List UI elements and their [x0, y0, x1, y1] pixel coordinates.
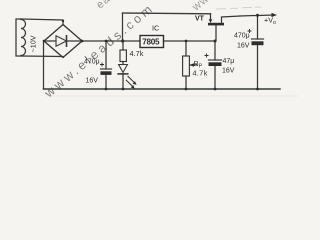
capacitor C2 47u wires [214, 41, 216, 89]
ground rail (bottom) [44, 88, 281, 90]
svg-text:16V: 16V [222, 68, 235, 75]
transformer T1 secondary coil [16, 19, 26, 56]
capacitor C2 thick plate [209, 62, 222, 66]
svg-text:7805: 7805 [142, 38, 160, 47]
regulator output rail [164, 40, 216, 42]
wire AC bottom: coil to bridge bottom vertex [21, 55, 63, 58]
junction dot output/C3 top [256, 14, 259, 17]
transistor VT emitter arrow [209, 19, 213, 23]
bridge internal diode symbol [46, 36, 80, 46]
wire DC- : left vertex down to ground rail [43, 41, 45, 89]
capacitor C3 470u wires [257, 15, 259, 89]
capacitor C1 thick plate [101, 71, 112, 75]
svg-text:470μ: 470μ [84, 59, 100, 66]
transistor VT base lead [215, 25, 217, 41]
LED lower wire [122, 74, 124, 89]
LED emission arrow strokes [100, 29, 252, 87]
junction dot C1 top [105, 40, 108, 43]
capacitor C3 plate thin [252, 38, 264, 40]
junction dot C1 bottom [105, 88, 108, 91]
capacitor C3 plus sign [248, 29, 252, 33]
potentiometer Rp wire bottom [185, 76, 187, 89]
junction dot base/C2 node [214, 40, 217, 43]
resistor R1 4.7k branch wire [122, 41, 124, 65]
wire DC+ rail to regulator input [82, 40, 140, 42]
svg-text:IC: IC [152, 24, 159, 33]
transistor VT collector drop [210, 14, 212, 20]
resistor R1 4.7k body [120, 50, 126, 62]
svg-text:16V: 16V [237, 43, 250, 50]
junction dot bridge top [62, 20, 64, 22]
svg-text:4.7k: 4.7k [193, 69, 208, 78]
LED VD triangle [119, 65, 128, 73]
IC U1 7805 box [140, 36, 164, 48]
junction dot Rp top [185, 40, 188, 43]
output rail right [240, 15, 273, 16]
svg-text:16V: 16V [86, 78, 99, 85]
svg-text:4.7k: 4.7k [130, 49, 144, 58]
potentiometer Rp body [183, 56, 190, 76]
capacitor C1 470u wire [105, 41, 107, 89]
top unregulated rail [123, 12, 211, 15]
svg-text:VT: VT [195, 16, 205, 23]
svg-text:470μ: 470μ [234, 33, 250, 40]
capacitor C2 plate thin [209, 59, 222, 61]
junction dot C3 bottom [256, 88, 259, 91]
junction dot bridge right vertex [81, 40, 84, 43]
watermark diagonal www text [41, 0, 218, 101]
bridge rectifier B1 diamond [44, 25, 82, 58]
capacitor C3 thick plate [252, 41, 264, 45]
capacitor C2 plus sign [205, 54, 209, 58]
scan smudge dashes top [216, 7, 261, 9]
capacitor C1 plates [101, 68, 112, 70]
faint dotted underline bottom [46, 95, 298, 97]
LED emission arrow 1 [133, 81, 137, 85]
junction dot C2 bottom [214, 88, 217, 91]
transistor VT base bar [208, 23, 224, 26]
wire AC top: coil to bridge top vertex [21, 19, 63, 25]
potentiometer Rp wire top [185, 41, 187, 56]
junction dot bridge left vertex [43, 40, 46, 43]
potentiometer Rp wiper arrowhead [190, 63, 194, 67]
svg-text:+Vo: +Vo [264, 16, 276, 27]
potentiometer Rp wiper stub [191, 64, 198, 66]
capacitor C1 plus sign [100, 63, 104, 67]
LED emission arrow 2 [131, 85, 135, 89]
svg-text:www: www [189, 0, 218, 14]
LED bar [118, 73, 128, 75]
transistor VT right lead [222, 16, 241, 23]
wire riser to top rail [122, 13, 124, 41]
junction dot LED bottom [122, 88, 125, 91]
svg-text:47μ: 47μ [223, 58, 235, 65]
output arrowhead [272, 13, 278, 17]
junction dot riser/R1 branch [121, 39, 124, 42]
junction dot Rp bottom [185, 88, 188, 91]
svg-text:~10V: ~10V [29, 35, 38, 52]
